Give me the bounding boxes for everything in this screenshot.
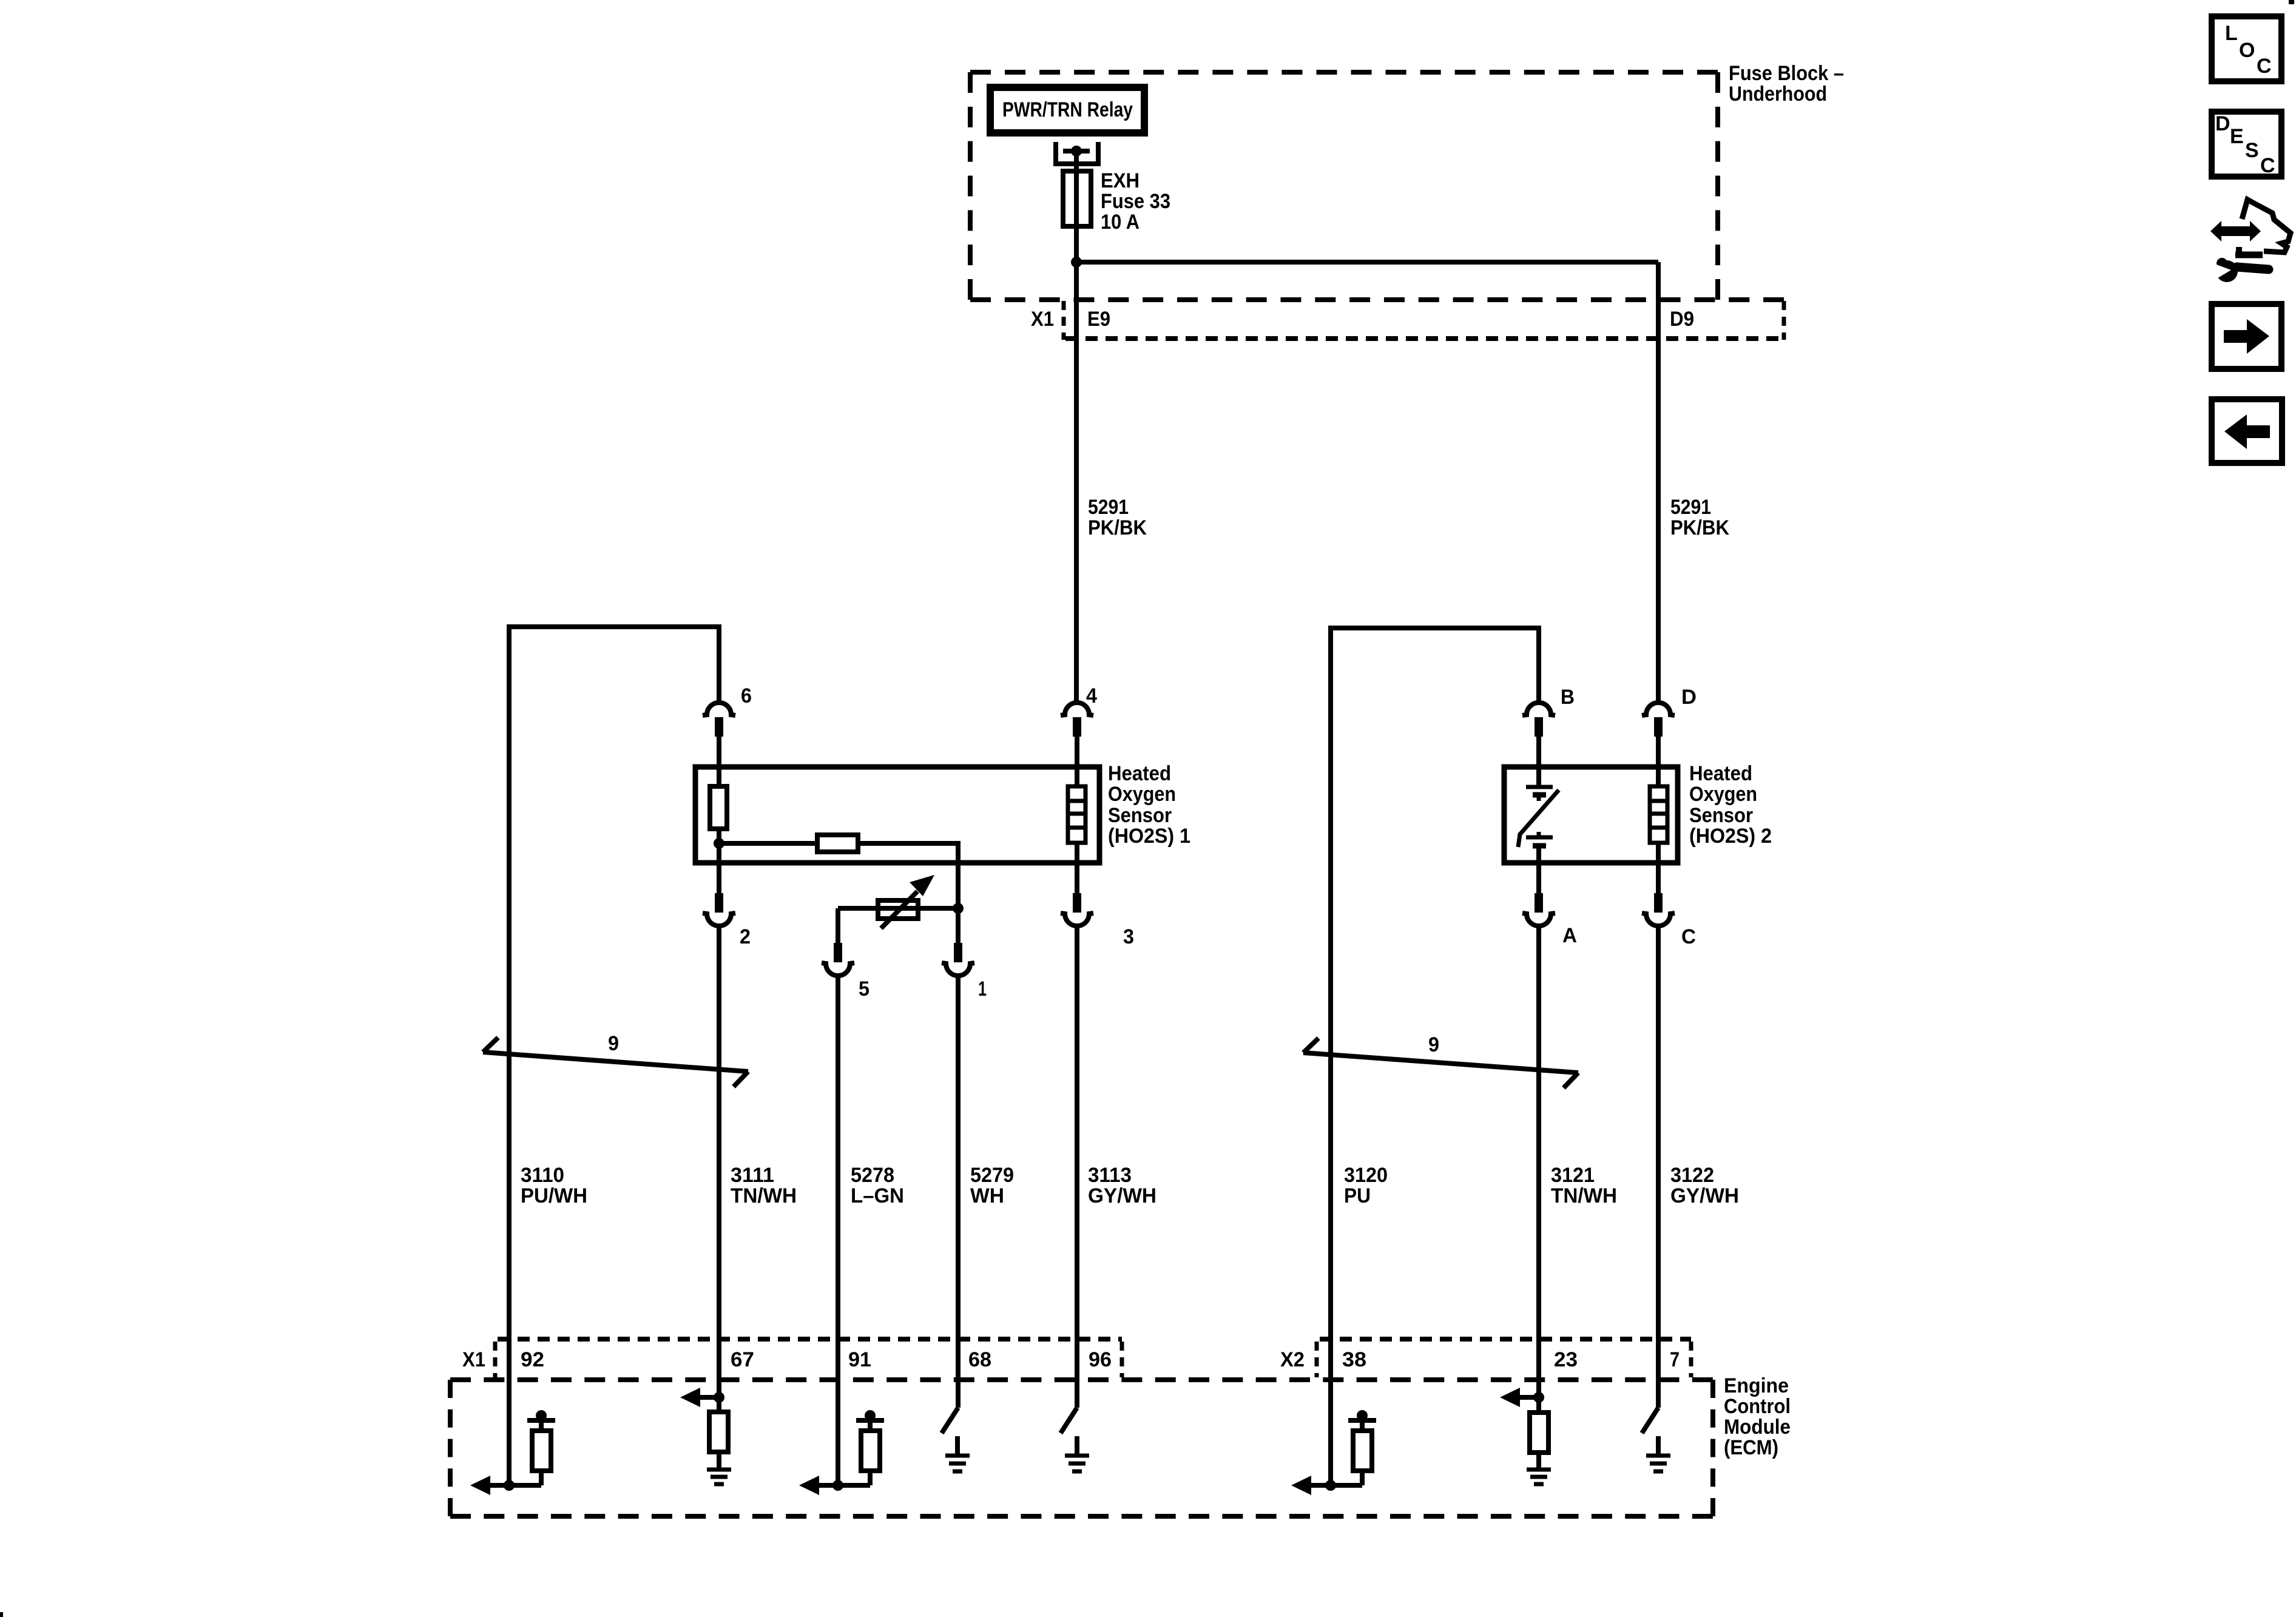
svg-text:X1: X1 [462, 1348, 485, 1371]
ground symbol under 68 [945, 1436, 970, 1471]
icon service info: panel base bar [2235, 247, 2263, 255]
svg-text:PWR/TRN Relay: PWR/TRN Relay [1002, 98, 1133, 121]
icon DESC box [2212, 112, 2281, 177]
svg-text:GY/WH: GY/WH [1670, 1184, 1739, 1207]
wire junction to pin 1 [956, 908, 961, 944]
svg-text:Heated: Heated [1108, 762, 1171, 785]
wire label 3120 PU [1344, 1164, 1388, 1207]
svg-text:A: A [1562, 924, 1577, 947]
svg-text:6: 6 [741, 684, 752, 707]
ECM input 68: switch contact [942, 1408, 958, 1433]
svg-text:C: C [2260, 154, 2275, 177]
ECM input 96: switch contact [1061, 1408, 1077, 1433]
wire label 3111 TN/WH [731, 1164, 797, 1207]
svg-text:E9: E9 [1087, 308, 1110, 331]
ground symbol under 67 [707, 1470, 731, 1484]
svg-text:PK/BK: PK/BK [1670, 516, 1729, 539]
svg-text:5291: 5291 [1670, 496, 1711, 519]
svg-text:B: B [1561, 686, 1575, 709]
pin 3 terminal [1061, 893, 1093, 1408]
svg-text:Module: Module [1724, 1416, 1791, 1439]
svg-text:PU/WH: PU/WH [521, 1184, 587, 1207]
icon next-page arrow box [2212, 304, 2281, 369]
label Heated Oxygen Sensor (HO2S) 2 [1689, 762, 1772, 848]
svg-text:5278: 5278 [851, 1164, 894, 1187]
variable resistor (O2 signal trim) [838, 875, 958, 928]
svg-text:10 A: 10 A [1101, 211, 1140, 234]
svg-text:X2: X2 [1280, 1348, 1305, 1371]
svg-text:GY/WH: GY/WH [1088, 1184, 1156, 1207]
svg-text:Fuse 33: Fuse 33 [1101, 190, 1170, 213]
svg-text:7: 7 [1670, 1348, 1680, 1371]
icon prev-page arrow box [2212, 399, 2282, 463]
pin 6 terminal [703, 703, 735, 769]
svg-text:9: 9 [1428, 1033, 1439, 1056]
ECM input 23: junction node [1533, 1392, 1544, 1403]
svg-text:3120: 3120 [1344, 1164, 1388, 1187]
ECM connector strip X1 [462, 1339, 1122, 1377]
wire label 3122 GY/WH [1670, 1164, 1739, 1207]
svg-text:3: 3 [1123, 925, 1134, 948]
wire var resistor to pin 5 [836, 908, 840, 944]
svg-text:Fuse Block –: Fuse Block – [1729, 62, 1844, 85]
svg-text:(ECM): (ECM) [1724, 1436, 1778, 1459]
heater element HO2S1 [1068, 769, 1086, 894]
junction node pin1/EGR tap [953, 903, 964, 914]
svg-text:E: E [2230, 125, 2244, 148]
wire pin2 drop from junction [717, 843, 721, 894]
ECM input 91: junction node [832, 1480, 843, 1491]
scan artifact top-right [2289, 0, 2294, 4]
svg-text:Control: Control [1724, 1395, 1791, 1418]
heater element HO2S2 [1650, 769, 1667, 894]
icon LOC box [2212, 16, 2281, 81]
ECM input 67: junction node [714, 1392, 724, 1403]
svg-text:91: 91 [848, 1348, 871, 1371]
ECM dashed box [450, 1380, 1713, 1516]
svg-text:C: C [2257, 55, 2272, 78]
ECM input 38: signal arrow [1291, 1476, 1362, 1495]
harness slash 9 right [1303, 1038, 1578, 1088]
ECM input 23: resistor to ground [1530, 1397, 1548, 1468]
wire junction to internal resistor [719, 841, 817, 846]
ground symbol under 96 [1065, 1436, 1089, 1471]
svg-text:O: O [2239, 39, 2255, 62]
pin B terminal [1522, 703, 1555, 769]
svg-text:Underhood: Underhood [1729, 83, 1827, 106]
wire label 5278 L-GN [851, 1164, 904, 1207]
HO2S 2 box [1504, 767, 1678, 863]
wire label 3121 TN/WH [1551, 1164, 1617, 1207]
svg-text:2: 2 [740, 925, 751, 948]
ground symbol under 23 [1527, 1470, 1551, 1484]
svg-text:C: C [1681, 925, 1696, 948]
ECM input 67: resistor to ground [709, 1397, 728, 1468]
ECM input 92: junction node [504, 1480, 515, 1491]
wire label 3110 PU/WH [521, 1164, 587, 1207]
svg-text:5: 5 [859, 977, 869, 1001]
label Fuse Block - Underhood [1729, 62, 1844, 106]
ECM input 38: pull-up resistor with reference bar and node [1348, 1410, 1376, 1485]
svg-text:Sensor: Sensor [1108, 804, 1172, 827]
svg-text:9: 9 [608, 1032, 619, 1055]
relay K: PWR/TRN Relay box [990, 87, 1144, 133]
pin 4 terminal [1061, 703, 1093, 769]
wire D9 drop through connector [1656, 262, 1661, 704]
junction node inside HO2S1 [714, 838, 724, 849]
svg-text:38: 38 [1342, 1348, 1366, 1371]
wire label 3113 GY/WH [1088, 1164, 1156, 1207]
wire top jumper left (pin 6 feed to ECM 92 drop) [509, 627, 719, 1485]
svg-text:(HO2S) 2: (HO2S) 2 [1689, 825, 1772, 848]
svg-text:5279: 5279 [970, 1164, 1014, 1187]
wire label 5291 PK/BK right [1670, 496, 1729, 539]
svg-text:WH: WH [970, 1184, 1004, 1207]
HO2S 1 box [695, 767, 1099, 863]
ECM input 92: pull-up resistor with reference bar and node [527, 1410, 555, 1485]
svg-text:L: L [2225, 22, 2238, 45]
junction node at fuse output [1071, 257, 1082, 268]
label Heated Oxygen Sensor (HO2S) 1 [1108, 762, 1190, 848]
svg-text:1: 1 [978, 977, 987, 1001]
internal resistor R (HO2S1 horizontal) [817, 835, 858, 852]
svg-text:67: 67 [731, 1348, 754, 1371]
sensing element resistor (HO2S1 left) [710, 769, 727, 843]
svg-text:TN/WH: TN/WH [731, 1184, 797, 1207]
svg-text:S: S [2245, 139, 2259, 162]
pin 1 terminal [942, 943, 974, 1408]
svg-text:3111: 3111 [731, 1164, 774, 1187]
svg-text:96: 96 [1089, 1348, 1112, 1371]
ECM input 7: switch contact [1642, 1408, 1658, 1433]
svg-text:D: D [2215, 112, 2230, 135]
svg-text:(HO2S) 1: (HO2S) 1 [1108, 825, 1190, 848]
ground symbol under 7 [1646, 1436, 1670, 1471]
ECM input 23: signal arrow [1500, 1388, 1539, 1407]
pin 2 terminal [703, 893, 735, 1397]
svg-text:D9: D9 [1670, 308, 1694, 331]
label Engine Control Module (ECM) [1724, 1374, 1791, 1459]
icon service info: double arrow [2210, 221, 2261, 241]
fuse block underhood dashed box [970, 72, 1784, 300]
svg-text:Sensor: Sensor [1689, 804, 1753, 827]
connector strip X1: E9 / D9 [1031, 301, 1784, 340]
svg-text:L–GN: L–GN [851, 1184, 904, 1207]
harness slash 9 left [483, 1038, 748, 1087]
wire resistor to pin 1 drop [858, 843, 958, 908]
svg-text:PK/BK: PK/BK [1088, 516, 1147, 539]
svg-text:92: 92 [521, 1348, 544, 1371]
svg-text:23: 23 [1554, 1348, 1578, 1371]
relay output terminal (socket cup with pin and dot) [1056, 142, 1098, 172]
wire top jumper right (pin B feed to ECM 38 drop) [1331, 628, 1539, 1485]
ECM input 91: signal arrow [799, 1476, 870, 1495]
wire junction to D9 drop [1076, 260, 1658, 265]
wire label 5291 PK/BK left [1088, 496, 1147, 539]
ECM connector strip X2 [1280, 1339, 1691, 1377]
ECM input 38: junction node [1325, 1480, 1336, 1491]
svg-text:3121: 3121 [1551, 1164, 1595, 1187]
svg-text:Heated: Heated [1689, 762, 1752, 785]
svg-text:X1: X1 [1031, 308, 1054, 331]
svg-text:EXH: EXH [1101, 169, 1140, 192]
pin 5 terminal [822, 943, 854, 1485]
pin C terminal [1642, 893, 1675, 1408]
svg-text:D: D [1681, 686, 1697, 709]
svg-text:TN/WH: TN/WH [1551, 1184, 1617, 1207]
svg-text:Oxygen: Oxygen [1108, 783, 1176, 806]
wire E9 drop through connector [1074, 262, 1079, 704]
svg-text:Oxygen: Oxygen [1689, 783, 1757, 806]
variable arrow across sensing cell [1518, 790, 1559, 847]
pin A terminal [1522, 893, 1555, 1397]
svg-text:3122: 3122 [1670, 1164, 1714, 1187]
fuse F33: EXH Fuse 33 10 A [1063, 169, 1170, 234]
ECM input 67: signal arrow [680, 1388, 719, 1407]
pin D terminal [1642, 703, 1675, 769]
icon service info: panel outline [2242, 200, 2291, 252]
scan artifact bottom-left [0, 1612, 3, 1617]
svg-text:5291: 5291 [1088, 496, 1129, 519]
ECM input 92: signal arrow [470, 1476, 541, 1495]
icon service info: wrench [2207, 258, 2269, 282]
svg-text:4: 4 [1086, 684, 1097, 707]
svg-text:68: 68 [968, 1348, 991, 1371]
svg-text:PU: PU [1344, 1184, 1371, 1207]
wire from fuse to junction [1074, 225, 1079, 262]
svg-text:3110: 3110 [521, 1164, 564, 1187]
ECM input 91: pull-up resistor with reference bar and node [856, 1410, 884, 1485]
sensing cell (HO2S2 battery symbol) [1526, 769, 1553, 894]
wire label 5279 WH [970, 1164, 1014, 1207]
svg-text:3113: 3113 [1088, 1164, 1132, 1187]
svg-text:Engine: Engine [1724, 1374, 1789, 1397]
